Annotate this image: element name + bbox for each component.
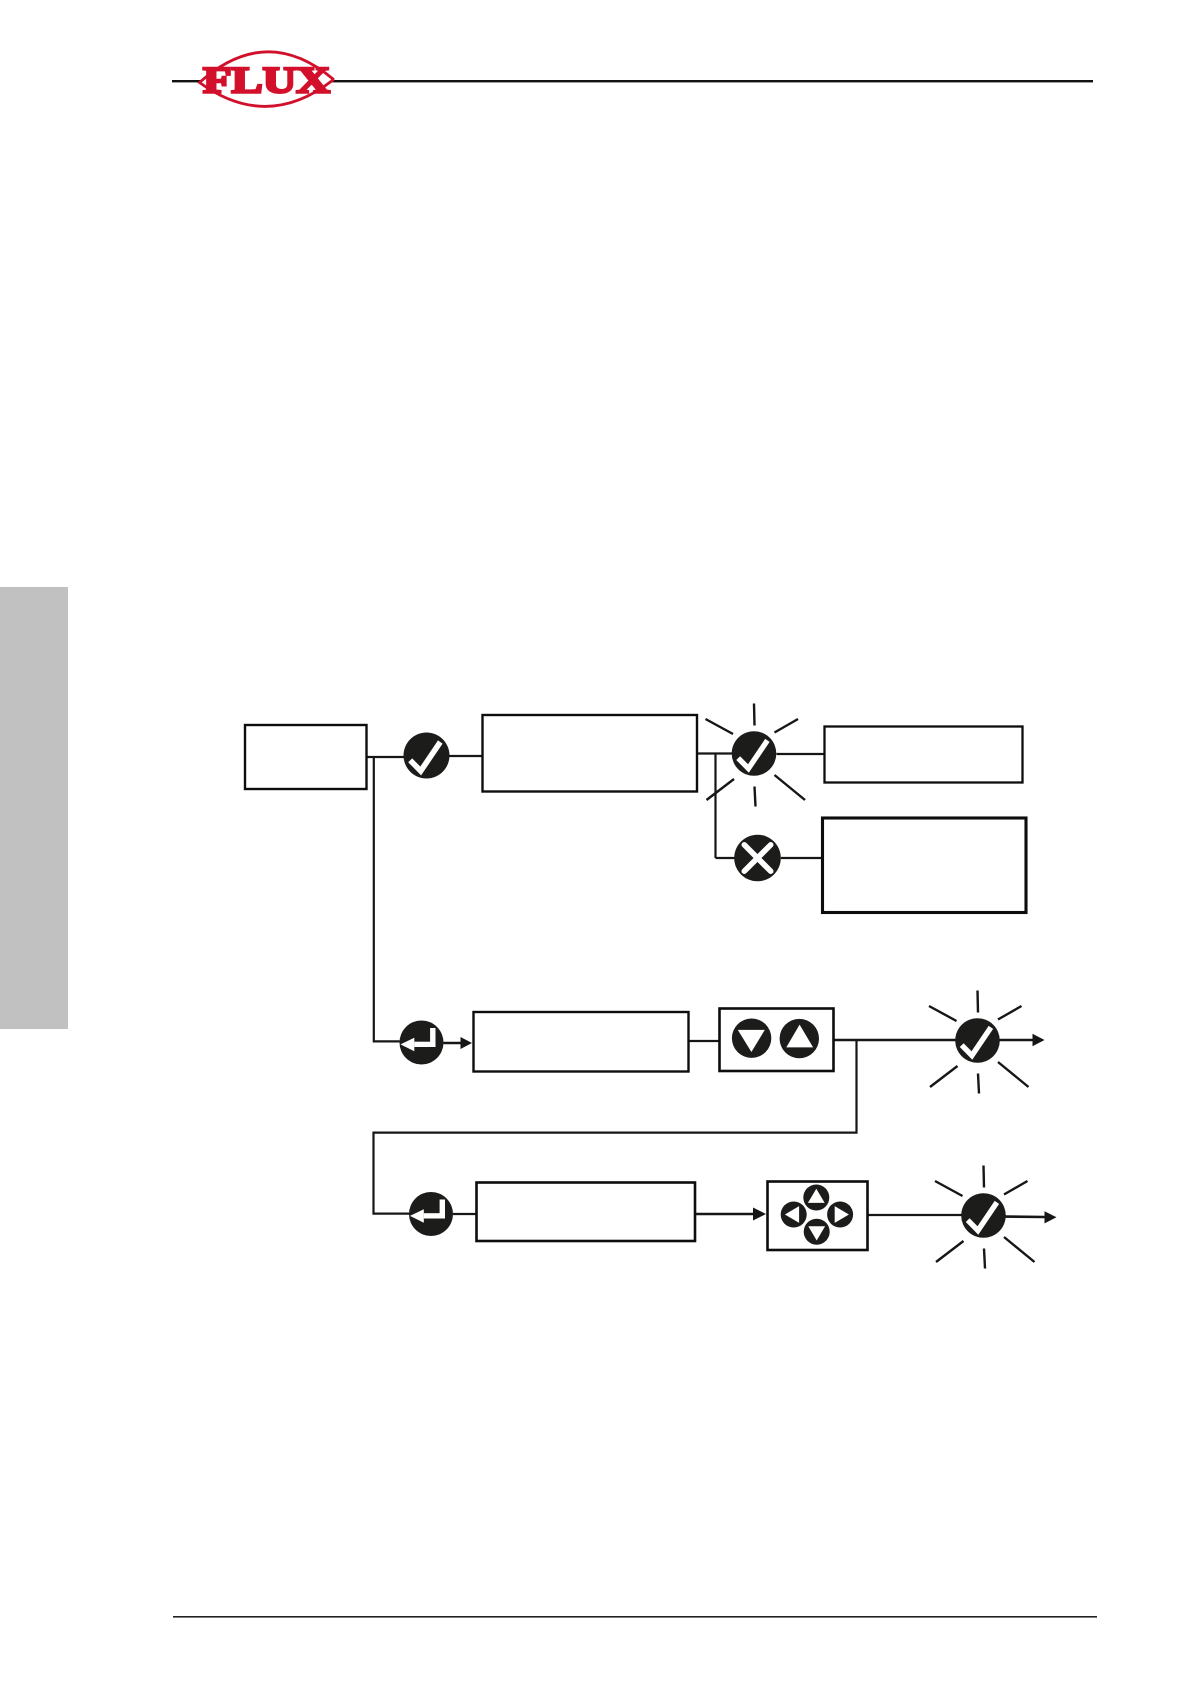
svg-text:FLUX: FLUX (203, 61, 330, 102)
